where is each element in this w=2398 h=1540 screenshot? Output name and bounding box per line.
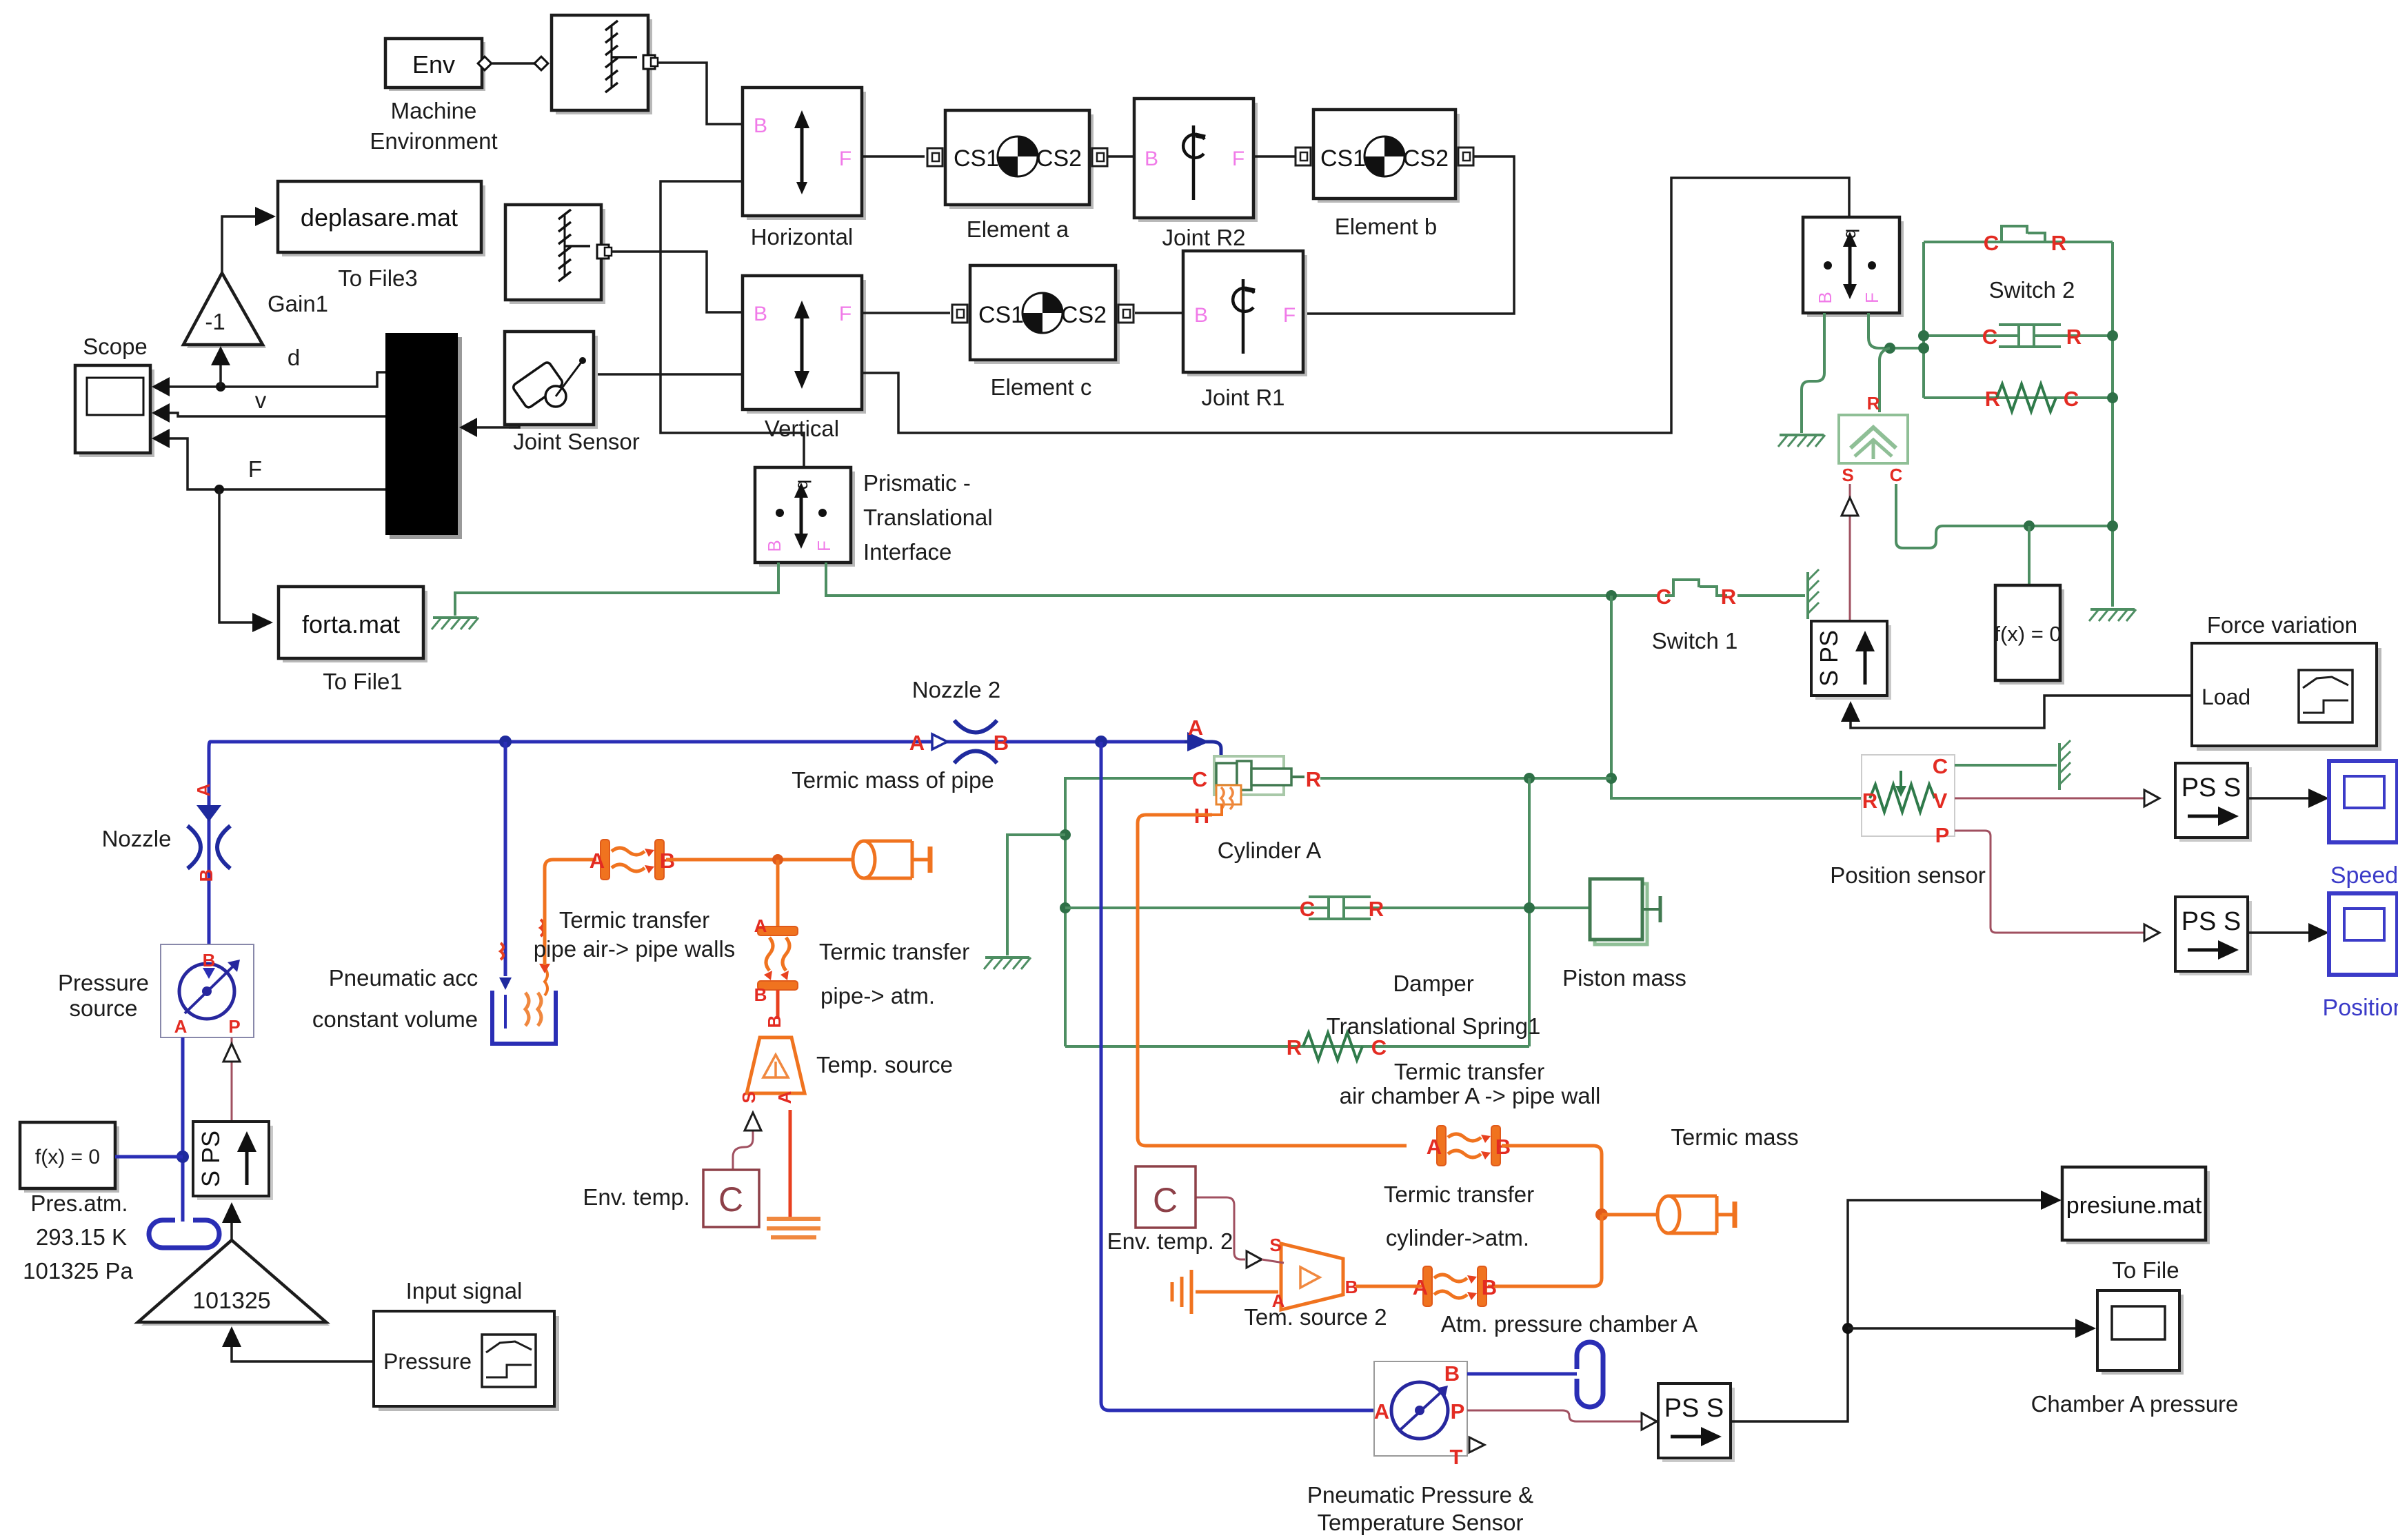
svg-text:To File: To File [2112, 1257, 2179, 1283]
svg-text:R: R [1369, 897, 1384, 921]
svg-text:Position sensor: Position sensor [1830, 862, 1986, 888]
wire sensor rail down to Interface top [661, 374, 804, 467]
block PS S 3 [1658, 1384, 1735, 1462]
svg-text:B: B [754, 114, 767, 137]
wire F mux to scope [168, 438, 385, 489]
wire PS S2 to Position scope [2248, 931, 2310, 934]
wire Switch2 spring branch [1924, 396, 2113, 399]
block Joint R2 [1134, 99, 1258, 222]
svg-text:A: A [754, 915, 767, 936]
ground below left leg [984, 958, 1031, 969]
component conv Atm pressure chamber A [1423, 1266, 1487, 1306]
wire f(x)=0 to rail [115, 1155, 183, 1159]
mux black block [385, 333, 462, 539]
svg-text:Force variation: Force variation [2207, 612, 2357, 638]
svg-text:Termic mass: Termic mass [1671, 1124, 1798, 1150]
svg-text:Scope: Scope [83, 334, 148, 359]
svg-text:Nozzle 2: Nozzle 2 [912, 677, 1000, 702]
wire Switch2 left rail [1922, 242, 1925, 398]
wire Vertical F to Element c [862, 312, 950, 314]
svg-text:Termic transfer: Termic transfer [559, 907, 709, 933]
block Pneumatic Pressure & Temperature Sensor [1374, 1361, 1484, 1469]
svg-text:Termic transfer: Termic transfer [1394, 1059, 1544, 1084]
svg-text:forta.mat: forta.mat [302, 610, 400, 638]
svg-text:F: F [248, 456, 262, 482]
thermal ground vertical [1172, 1270, 1191, 1314]
svg-text:F: F [839, 148, 852, 170]
svg-text:B: B [196, 869, 216, 882]
svg-text:F: F [1232, 148, 1245, 170]
component plugged loop vertical [1577, 1342, 1603, 1407]
node ground tap [1060, 829, 1071, 840]
svg-text:To File3: To File3 [338, 265, 418, 291]
svg-text:Pneumatic Pressure &: Pneumatic Pressure & [1307, 1482, 1533, 1508]
node mid branch [1918, 330, 1929, 341]
svg-text:A: A [174, 1016, 188, 1037]
wire Element a to Joint R2 [1107, 155, 1134, 158]
scope Position [2329, 893, 2397, 975]
svg-text:A: A [1188, 716, 1203, 740]
component Nozzle [188, 783, 230, 882]
wire acc branch down [504, 742, 507, 976]
block Env. temp. C [703, 1170, 759, 1227]
block Joint R1 [1183, 251, 1307, 376]
svg-text:pipe-> atm.: pipe-> atm. [820, 983, 935, 1009]
wire C2 to Tem source 2 S (maroon) [1196, 1197, 1245, 1259]
svg-text:P: P [1935, 823, 1950, 847]
svg-text:C: C [1982, 325, 1997, 349]
svg-text:B: B [994, 731, 1009, 755]
svg-text:R: R [1985, 387, 2000, 411]
gain Gain1 [183, 273, 266, 348]
svg-text:source: source [69, 995, 137, 1021]
svg-text:A: A [1427, 1135, 1442, 1159]
node acc branch [499, 736, 512, 748]
scope Chamber A pressure [2097, 1290, 2184, 1375]
node damper row rail [1524, 902, 1535, 913]
wire motion sensor S to S PS (maroon) [1849, 484, 1851, 621]
block f(x)=0 left [20, 1122, 119, 1193]
block S PS right [1811, 621, 1891, 700]
junction F [214, 485, 224, 494]
block Horizontal (prismatic joint) [743, 88, 866, 220]
svg-text:Prismatic -: Prismatic - [863, 470, 971, 496]
wire Position sensor C to ground [1955, 764, 2057, 767]
svg-text:R: R [2066, 325, 2082, 349]
svg-text:F: F [839, 303, 852, 325]
wire Prismatic B-port to junction [1868, 313, 1924, 348]
svg-text:cylinder->atm.: cylinder->atm. [1386, 1225, 1529, 1250]
wire conv to junction [1502, 1146, 1602, 1215]
wire damper rail vertical [1528, 778, 1531, 1046]
svg-text:Temp. source: Temp. source [816, 1052, 953, 1077]
block Force variation subsystem [2192, 643, 2381, 751]
svg-text:Joint R2: Joint R2 [1162, 225, 1245, 250]
node junction Switch1 rail [1606, 590, 1617, 601]
svg-text:Piston mass: Piston mass [1562, 965, 1686, 991]
wire Element c to Joint R1 B [1135, 312, 1183, 314]
block deplasare.mat To File3 [278, 181, 485, 256]
wire conv to Temp source B [776, 990, 780, 1019]
wire into Cylinder A port [1185, 742, 1221, 758]
svg-text:R: R [1287, 1035, 1302, 1060]
wire Pressure source A down rail [181, 1037, 185, 1222]
svg-text:C: C [2064, 387, 2079, 411]
wire Pressure block to gain input [232, 1346, 374, 1361]
junction d [216, 382, 225, 392]
svg-text:R: R [1862, 789, 1877, 813]
wire long blue to pressure sensor A [1101, 742, 1374, 1410]
svg-text:air chamber A -> pipe wall: air chamber A -> pipe wall [1340, 1083, 1601, 1108]
wire F junction to To File1 [219, 489, 254, 622]
wire Load to S PS input [1851, 696, 2192, 728]
svg-text:v: v [255, 387, 267, 413]
block presiune.mat To File [2062, 1167, 2210, 1244]
svg-text:A: A [590, 849, 605, 873]
svg-text:B: B [203, 950, 216, 971]
block Element a [927, 110, 1107, 209]
component plugged port loop [149, 1220, 219, 1248]
wire orange tank to row1 [545, 860, 596, 965]
wire ground tap [1007, 835, 1065, 955]
svg-text:R: R [1867, 393, 1880, 414]
wire Ground1 to Horizontal B [658, 63, 743, 124]
block Env. temp. 2 C [1136, 1166, 1196, 1228]
svg-text:Element b: Element b [1335, 214, 1438, 239]
wire nozzle1 vertical [209, 742, 210, 944]
svg-text:Switch 2: Switch 2 [1989, 277, 2075, 303]
wire Prismatic left port to ground [1802, 313, 1824, 433]
svg-text:pipe air-> pipe walls: pipe air-> pipe walls [534, 936, 736, 962]
svg-text:T: T [1450, 1445, 1463, 1469]
wire Horizontal F to Element a [862, 155, 925, 158]
svg-text:F: F [1283, 304, 1296, 327]
wire junction down to motion sensor R [1880, 348, 1890, 412]
svg-text:A: A [909, 731, 925, 755]
svg-text:R: R [2051, 231, 2066, 255]
block Element c [952, 265, 1133, 364]
svg-text:Termic transfer: Termic transfer [819, 939, 969, 964]
ground below right rail [2089, 609, 2136, 621]
svg-text:A: A [193, 783, 214, 796]
svg-text:Chamber A pressure: Chamber A pressure [2031, 1391, 2239, 1417]
wire v mux to scope [168, 413, 385, 416]
wire Joint R2 to Element b [1253, 155, 1296, 158]
svg-text:Vertical: Vertical [765, 416, 839, 441]
svg-text:C: C [1371, 1035, 1387, 1060]
wire Interface left port to ground [455, 563, 778, 616]
svg-text:A: A [774, 1091, 795, 1104]
svg-text:Env: Env [412, 50, 455, 79]
svg-text:S: S [1842, 465, 1853, 485]
svg-text:Speed: Speed [2330, 862, 2398, 889]
svg-text:R: R [1721, 585, 1736, 609]
block PS S 1 [2175, 763, 2252, 842]
ground wall at Position sensor C [2059, 740, 2070, 790]
svg-text:A: A [1374, 1399, 1389, 1424]
svg-text:Element c: Element c [991, 374, 1092, 400]
wire node to solver block [2028, 526, 2031, 585]
wire spring row [1065, 1045, 1529, 1048]
svg-text:Pres.atm.: Pres.atm. [30, 1191, 128, 1216]
svg-text:R: R [1306, 767, 1321, 791]
wire Ground2 to Vertical B [611, 252, 743, 312]
svg-text:f(x) = 0: f(x) = 0 [35, 1146, 100, 1168]
svg-text:B: B [754, 303, 767, 325]
svg-text:Interface: Interface [863, 539, 951, 565]
svg-text:Translational Spring1: Translational Spring1 [1327, 1013, 1541, 1039]
wire motion sensor C to f(x)=0 and rail [1896, 484, 2113, 548]
block Temp. source [738, 1037, 805, 1104]
wire node down to vertical conv [776, 860, 780, 927]
block Joint Sensor [505, 332, 598, 429]
wire Temp source A to thermal ground [789, 1110, 792, 1219]
block Ground2 [505, 205, 612, 304]
wire green rail down to Position sensor R [1611, 596, 1862, 798]
component conv pipe air->pipe walls [601, 840, 664, 880]
ground under Interface left [432, 618, 478, 629]
wire sensor B to plugged loop [1467, 1372, 1577, 1376]
svg-text:Pressure: Pressure [383, 1349, 472, 1374]
wire cylinder C left leg [1065, 778, 1193, 1046]
block Cylinder A [1192, 756, 1321, 828]
svg-text:Pressure: Pressure [58, 970, 149, 995]
node f(x) tap [177, 1151, 189, 1163]
wire Joint Sensor to mux input [476, 425, 519, 427]
block Scope [75, 365, 154, 457]
svg-text:Environment: Environment [370, 128, 497, 154]
svg-text:B: B [1444, 1361, 1460, 1386]
svg-text:C: C [1192, 767, 1207, 791]
node damper row left [1060, 902, 1071, 913]
svg-text:Nozzle: Nozzle [102, 826, 172, 851]
wire main pneumatic line [210, 740, 1185, 744]
svg-text:C: C [1300, 897, 1315, 921]
component Termic mass of pipe (cylinder) [853, 841, 930, 878]
wire Horizontal sensor port rail [661, 181, 743, 374]
wire V to PS S 1 (maroon) [1955, 798, 2144, 800]
svg-text:Atm. pressure chamber A: Atm. pressure chamber A [1441, 1311, 1697, 1337]
svg-text:Temperature Sensor: Temperature Sensor [1318, 1510, 1524, 1535]
wire d mux to scope [168, 372, 385, 387]
block right Prismatic [1803, 217, 1904, 317]
node orange row1 [772, 854, 783, 865]
node rail-cylinder row [1606, 773, 1617, 784]
svg-text:-1: -1 [205, 309, 225, 334]
svg-text:F: F [814, 540, 834, 551]
svg-text:293.15 K: 293.15 K [36, 1224, 127, 1250]
block f(x)=0 solver [1994, 585, 2064, 685]
thermal ground horizontal [767, 1219, 820, 1237]
component Nozzle 2 [909, 720, 1009, 763]
wire sensor P to PS S 3 (maroon) [1467, 1410, 1642, 1421]
block Ground1 [552, 15, 658, 114]
block forta.mat To File1 [279, 587, 427, 662]
svg-text:101325 Pa: 101325 Pa [23, 1258, 133, 1284]
svg-text:B: B [764, 1015, 785, 1029]
wire Cylinder H port orange [1138, 815, 1407, 1146]
svg-text:V: V [1933, 789, 1948, 813]
svg-text:P: P [228, 1016, 240, 1037]
svg-text:Joint R1: Joint R1 [1201, 385, 1284, 410]
wire row2 up to junction [1488, 1215, 1602, 1286]
svg-text:S: S [738, 1091, 759, 1103]
svg-text:B: B [1145, 148, 1158, 170]
svg-text:Input signal: Input signal [406, 1278, 523, 1304]
wire PS S3 to To File / scope [1731, 1200, 2042, 1421]
block Element b [1296, 110, 1473, 203]
svg-text:C: C [1933, 754, 1948, 778]
wire Cylinder A R row [1320, 777, 1611, 780]
svg-text:deplasare.mat: deplasare.mat [301, 203, 458, 232]
block Piston mass [1590, 879, 1660, 944]
wire Vertical bottom-right to right Prismatic B [862, 178, 1849, 433]
gain 101325 [138, 1240, 330, 1326]
svg-text:101325: 101325 [192, 1288, 270, 1314]
wire gain to S PS input [230, 1222, 233, 1240]
block PS S 2 [2175, 897, 2252, 975]
wire d junction to Gain1 input [219, 364, 222, 387]
svg-text:C: C [718, 1180, 743, 1219]
svg-text:B: B [1815, 292, 1835, 303]
node orange junction [1595, 1208, 1608, 1221]
block Tem. source 2 [1269, 1235, 1358, 1311]
wire Gain1 out to To File3 [222, 216, 256, 273]
svg-text:Position: Position [2323, 995, 2398, 1021]
wire P to PS S 2 (maroon) [1955, 831, 2144, 933]
block Pneumatic acc constant volume (tank) [492, 991, 556, 1044]
scope Speed [2329, 761, 2397, 842]
svg-text:Tem. source 2: Tem. source 2 [1244, 1304, 1387, 1330]
component conv cylinder->atm [1437, 1126, 1500, 1166]
block Pressure source [161, 944, 254, 1037]
block Prismatic-Translational Interface [755, 467, 855, 567]
node damper rail top [1524, 773, 1535, 784]
svg-text:Horizontal: Horizontal [751, 224, 854, 250]
wire damper row [1065, 906, 1590, 909]
wire junction to Termic mass [1602, 1213, 1669, 1217]
svg-text:Switch 1: Switch 1 [1652, 628, 1738, 654]
svg-text:B: B [1194, 304, 1208, 327]
svg-text:Termic transfer: Termic transfer [1384, 1182, 1534, 1207]
svg-text:B: B [1482, 1275, 1497, 1299]
svg-text:P: P [1451, 1399, 1465, 1424]
svg-text:Damper: Damper [1393, 971, 1473, 996]
svg-text:Cylinder A: Cylinder A [1218, 838, 1321, 863]
svg-text:Env. temp. 2: Env. temp. 2 [1107, 1228, 1233, 1254]
wire Tem source 2 B to conv [1356, 1285, 1422, 1288]
svg-text:C: C [1890, 465, 1903, 485]
wire Element b to Joint R1 F [1303, 156, 1514, 314]
node sensor branch [1095, 736, 1107, 748]
svg-text:Gain1: Gain1 [268, 291, 328, 316]
wire Switch2 top branch [1924, 241, 2113, 243]
svg-text:Joint Sensor: Joint Sensor [513, 429, 639, 454]
component conv pipe->atm (vertical) [758, 926, 798, 990]
block motion sensor [1839, 393, 1908, 485]
svg-text:Load: Load [2201, 685, 2250, 709]
wire Interface right port long line to Switch 1 [826, 563, 1658, 596]
svg-text:Termic mass of pipe: Termic mass of pipe [792, 767, 994, 793]
block Position sensor [1862, 754, 1955, 847]
svg-text:d: d [288, 345, 300, 370]
block Input signal Pressure [374, 1311, 559, 1411]
svg-text:f(x) = 0: f(x) = 0 [1994, 622, 2061, 646]
svg-text:F: F [1862, 292, 1882, 303]
svg-text:Pneumatic acc: Pneumatic acc [329, 965, 478, 991]
svg-text:constant volume: constant volume [312, 1006, 478, 1032]
svg-text:C: C [1153, 1181, 1178, 1219]
wire Switch2 middle branch [1924, 334, 2113, 337]
svg-text:Translational: Translational [863, 505, 993, 530]
ground below Prismatic left [1778, 435, 1825, 447]
svg-text:Machine: Machine [391, 98, 477, 123]
block Vertical (prismatic joint) [743, 276, 866, 414]
svg-text:presiune.mat: presiune.mat [2066, 1193, 2202, 1219]
svg-text:S: S [1269, 1235, 1281, 1255]
wire Temp source S to C block (maroon) [733, 1131, 753, 1170]
component Termic mass cylinder [1658, 1196, 1735, 1233]
svg-text:Env. temp.: Env. temp. [583, 1184, 689, 1210]
wire Switch2 right rail [2111, 242, 2114, 607]
svg-text:Element a: Element a [967, 216, 1069, 242]
component small transfer icon at tank [539, 920, 550, 995]
wire Env to Ground1 (diamond connectors) [478, 57, 548, 70]
wire row1 to cylinder [666, 858, 853, 862]
svg-text:B: B [754, 984, 767, 1005]
svg-text:To File1: To File1 [323, 669, 403, 694]
wire Pressure source P to S PS (maroon) [231, 1037, 233, 1122]
wire Switch1 R to wall ground [1737, 594, 1805, 597]
block Env (Machine Environment) [385, 39, 485, 91]
wire Joint Sensor to Vertical sensor port [594, 373, 743, 376]
block S PS left [193, 1122, 273, 1200]
ground wall Switch1 [1808, 569, 1819, 619]
wire Tem source 2 A to thermal ground 2 [1196, 1290, 1278, 1294]
wire PS S1 to Speed scope [2248, 797, 2310, 800]
svg-text:B: B [764, 540, 785, 551]
